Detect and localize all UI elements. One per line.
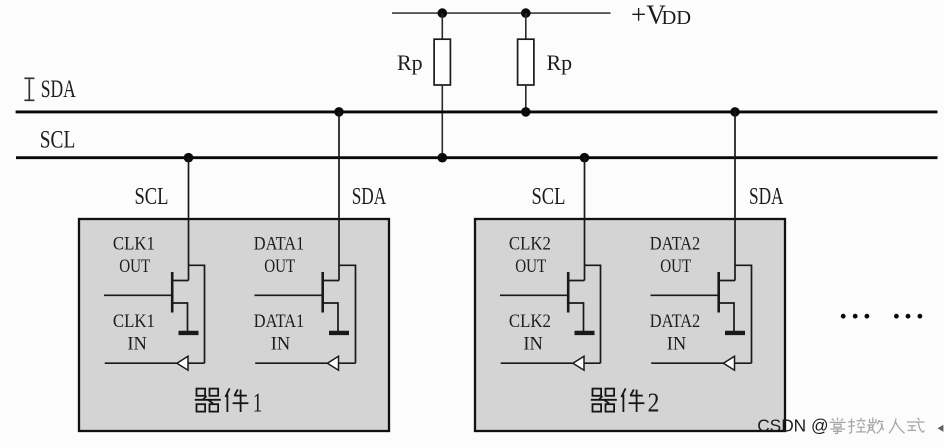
wire: VDD to resistor R1 top <box>441 13 443 39</box>
wire: Q3 source <box>568 303 583 331</box>
ground (CLK1 source) <box>179 331 199 335</box>
svg-text:DATA2: DATA2 <box>650 233 701 254</box>
wire: Q2 source <box>323 303 338 331</box>
wire: SDA bus down to Q4 drain <box>734 112 736 281</box>
wire: Q1 source <box>172 303 187 331</box>
svg-text:SDA: SDA <box>352 183 387 210</box>
transistor Q1 CLK1 (device1) <box>104 158 205 371</box>
svg-text:SDA: SDA <box>749 183 784 210</box>
label +VDD <box>631 0 691 29</box>
svg-text:DATA1: DATA1 <box>254 233 305 254</box>
buffer: DATA1 input triangle <box>327 356 338 370</box>
resistor Rp (left, R1) <box>434 39 450 85</box>
transistor Q2 DATA1 (device1) <box>255 112 356 370</box>
ground (CLK2 source) <box>575 331 595 335</box>
transistor Q3 CLK2 (device2) <box>500 158 601 371</box>
svg-text:IN: IN <box>667 334 687 355</box>
node: dot device2 CLK/SCL <box>580 153 590 163</box>
label CLK1 OUT <box>113 233 155 354</box>
wire: CLK1 IN line <box>105 362 177 364</box>
svg-text:SCL: SCL <box>40 126 76 153</box>
svg-text:IN: IN <box>271 334 291 355</box>
label 器件2 (device 2 name, drawn strokes) <box>591 388 645 412</box>
node: dot device1 CLK/SCL <box>184 153 194 163</box>
wire: DATA2 IN line <box>651 362 723 364</box>
wire: CLK2 IN line <box>501 362 573 364</box>
label: text cursor I-beam <box>24 78 34 100</box>
svg-text:2: 2 <box>648 387 660 418</box>
svg-text:SCL: SCL <box>532 183 566 210</box>
wire: DATA1 IN line <box>255 362 327 364</box>
wire: Q1 drain horizontal <box>172 280 188 282</box>
svg-text:DATA2: DATA2 <box>650 311 701 332</box>
label 器件1 (device 1 name, drawn strokes) <box>195 388 249 412</box>
wire: jog to input buffer feedback <box>339 265 356 363</box>
svg-text:DATA1: DATA1 <box>254 311 305 332</box>
svg-text:OUT: OUT <box>119 256 150 277</box>
wire: triangle to feedback <box>188 362 205 364</box>
wire: triangle to feedback <box>735 362 752 364</box>
node: dot R2/SDA <box>521 107 531 117</box>
svg-text:OUT: OUT <box>264 256 295 277</box>
transistor Q4 DATA2 (device2) <box>651 112 752 370</box>
svg-text:OUT: OUT <box>515 256 546 277</box>
wire: jog to input buffer feedback <box>735 265 752 363</box>
wire: VDD to resistor R2 top <box>525 13 527 39</box>
label DATA2 OUT <box>650 233 701 354</box>
wire: +VDD supply rail <box>392 12 611 14</box>
node: dot R1/SCL <box>438 153 448 163</box>
wire: jog to input buffer feedback <box>585 265 601 363</box>
wire: triangle to feedback <box>584 362 601 364</box>
svg-text:Rp: Rp <box>397 50 423 75</box>
transistor Q2 channel bar <box>321 272 324 313</box>
watermark trailing mark <box>938 425 944 432</box>
wire: SCL bus down to Q1 drain <box>188 158 190 281</box>
node: junction dot VDD/R1 <box>438 8 448 18</box>
transistor Q1 channel bar <box>171 272 174 313</box>
node: junction dot VDD/R2 <box>521 8 531 18</box>
wire: Q2 gate line <box>255 294 322 296</box>
wire: Q3 gate line <box>500 294 567 296</box>
svg-text:CSDN @: CSDN @ <box>757 416 828 436</box>
svg-text:SCL: SCL <box>135 183 169 210</box>
svg-text:IN: IN <box>127 334 147 355</box>
wire: resistor R2 bottom to SDA bus <box>525 85 527 112</box>
node: dot device1 DATA/SDA <box>334 107 344 117</box>
svg-text:CLK1: CLK1 <box>113 311 155 332</box>
wire: jog to input buffer feedback <box>189 265 205 363</box>
device box 器件1 <box>79 219 389 431</box>
wire: Q3 drain horizontal <box>568 280 584 282</box>
label CLK2 OUT <box>509 233 551 354</box>
node: dot device2 DATA/SDA <box>730 107 740 117</box>
wire: SDA bus down to Q2 drain <box>338 112 340 281</box>
transistor Q3 channel bar <box>567 272 570 313</box>
buffer: CLK1 input triangle <box>177 356 188 370</box>
svg-text:CLK2: CLK2 <box>509 233 551 254</box>
ground (DATA1 source) <box>329 331 349 335</box>
wire: Q2 drain horizontal <box>323 280 339 282</box>
label DATA1 OUT <box>254 233 305 354</box>
wire: SCL bus down to Q3 drain <box>584 158 586 281</box>
svg-text:Rp: Rp <box>547 50 573 75</box>
wire: Q4 gate line <box>651 294 718 296</box>
wire: triangle to feedback <box>339 362 356 364</box>
watermark CSDN @掌控嵌入式 <box>757 416 828 436</box>
buffer: DATA2 input triangle <box>723 356 734 370</box>
resistor Rp (right, R2) <box>518 39 534 85</box>
watermark CJK strokes 掌控嵌入式 <box>830 418 925 434</box>
transistor Q4 channel bar <box>717 272 720 313</box>
ground (DATA2 source) <box>725 331 745 335</box>
svg-text:OUT: OUT <box>660 256 691 277</box>
wire: Q1 gate line <box>104 294 171 296</box>
svg-text:SDA: SDA <box>41 76 76 103</box>
wire: Q4 drain horizontal <box>719 280 735 282</box>
wire: Q4 source <box>719 303 734 331</box>
wire: resistor R1 bottom to SCL bus (crosses SDA, no dot) <box>441 85 443 158</box>
wire: SDA bus line <box>16 110 938 113</box>
svg-text:CLK1: CLK1 <box>113 233 155 254</box>
device box 器件2 <box>475 219 785 431</box>
ellipsis dots (more devices) <box>841 314 923 319</box>
svg-text:DD: DD <box>662 7 692 29</box>
svg-text:1: 1 <box>253 387 262 418</box>
wire: SCL bus line <box>16 156 938 159</box>
svg-text:CLK2: CLK2 <box>509 311 551 332</box>
buffer: CLK2 input triangle <box>573 356 584 370</box>
svg-text:IN: IN <box>523 334 543 355</box>
